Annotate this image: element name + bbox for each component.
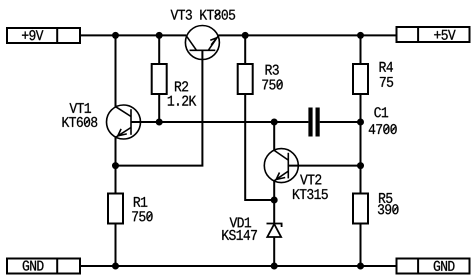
label KT608 [63, 117, 98, 127]
label 750 [262, 79, 282, 89]
wire bottom rail [80, 265, 397, 267]
node gnd-VD1 [271, 263, 278, 270]
label R3 [266, 65, 279, 75]
wire VT1 collector [115, 35, 117, 107]
wire R1 leads [115, 166, 117, 266]
label 750 [132, 211, 152, 221]
wire R3 top lead [244, 35, 246, 64]
label VT1 [70, 103, 92, 113]
node rail-VT1 [112, 32, 119, 39]
label 4700 [369, 124, 397, 134]
wire top rail right [218, 34, 396, 36]
node rail-R3 [242, 32, 249, 39]
resistor R1 [108, 194, 123, 224]
transistor VT2 [264, 149, 298, 183]
wire mid line (VT1 base to C1) [131, 121, 308, 123]
node rail-R4 [357, 32, 364, 39]
transistor VT1 [107, 105, 141, 139]
node mid-R2 [156, 119, 163, 126]
node rail-R2 [156, 32, 163, 39]
slashed zeros (DOS font style) [85, 12, 397, 219]
wire VD1 leads [273, 200, 275, 266]
label R4 [380, 62, 393, 72]
terminal +9V [7, 28, 80, 43]
node mid-C1right [357, 119, 364, 126]
label C1 [374, 107, 388, 117]
node VT1e [112, 162, 119, 169]
label GND [434, 261, 455, 271]
label KS147 [222, 230, 257, 240]
node gnd-R1 [112, 263, 119, 270]
label 1.2K [168, 96, 197, 106]
wire VT1 emitter [115, 138, 117, 166]
resistor R4 [353, 64, 368, 94]
label +9V [22, 30, 43, 40]
label VD1 [230, 218, 252, 228]
wire C1 right to rail [320, 121, 361, 123]
label KT315 [293, 189, 328, 199]
wire VT3 base down and left [116, 50, 203, 165]
transistor VT3 [185, 26, 219, 60]
resistor R3 [238, 64, 253, 94]
label GND [23, 261, 44, 271]
node VT2e-VD1 [271, 197, 278, 204]
wire R4 leads / right vertical [360, 35, 362, 266]
capacitor C1 [308, 108, 319, 137]
label R1 [134, 197, 147, 207]
terminal GND right [397, 259, 470, 274]
label VT2 [300, 174, 321, 184]
wire VT2 emitter [273, 181, 275, 200]
label R5 [379, 193, 392, 203]
resistor R2 [152, 64, 167, 94]
node mid-VT2c [271, 119, 278, 126]
wire VT2 base to right rail [288, 165, 360, 167]
terminal +5V [397, 27, 470, 42]
wire R3 bottom lead to VT2 emitter node [245, 94, 274, 200]
label VT3 KT805 [171, 10, 236, 20]
label R2 [175, 81, 188, 91]
label 390 [378, 204, 399, 214]
node VT2base-rail [357, 162, 364, 169]
wire R2 leads [158, 35, 160, 122]
terminal GND left [7, 259, 80, 274]
resistor R5 [353, 194, 368, 224]
label 75 [380, 77, 393, 87]
node gnd-R5 [357, 263, 364, 270]
wire VT2 collector [273, 122, 275, 150]
label +5V [434, 30, 455, 40]
diode VD1 (zener) [267, 224, 282, 238]
wire top rail left [80, 34, 186, 36]
